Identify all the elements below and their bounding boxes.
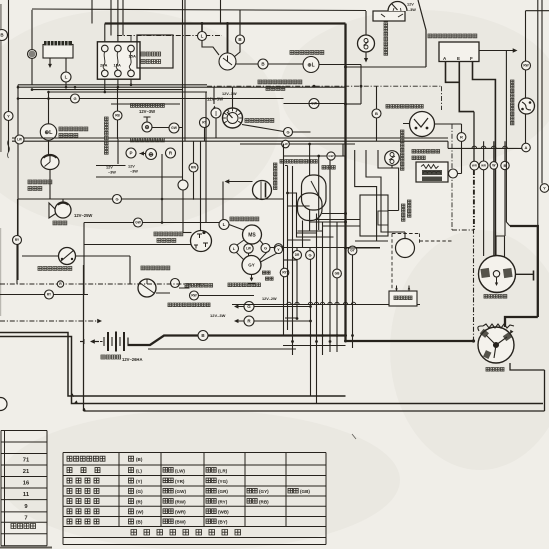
junction dots mesh [286,143,475,343]
node G row [306,251,315,260]
node W right [490,162,498,170]
svg-text:GW: GW [135,221,141,225]
wire breaker to R node [435,124,462,133]
svg-text:(W): (W) [136,510,144,515]
node R chain [57,281,63,287]
svg-text:(B): (B) [136,520,143,525]
beam pilot arrow [140,151,144,155]
label contact breaker [386,105,423,109]
generator arrow [496,278,498,284]
starter rotor [486,335,507,358]
svg-text:Y: Y [7,113,10,118]
meter lamp bulb [142,122,152,132]
mesh v297 [285,260,298,319]
thick bus to engine [346,340,474,342]
wire hazard to x361 [319,64,361,66]
svg-text:(RB): (RB) [259,499,269,504]
ground arrow below relay [49,58,51,64]
node B mesh upper [372,109,381,118]
starter brush pads [480,329,512,359]
dashed link plug to chain [420,240,453,242]
wire lighting switch left upper [183,232,192,234]
wire top horizontal bus [32,9,366,11]
wire bar circle down [215,118,217,138]
svg-text:12V–2W: 12V–2W [262,297,277,301]
wire left vertical [8,0,10,152]
label hazard switch v2 [408,200,411,217]
node WR2 [479,161,488,170]
node B ignition [236,35,245,44]
line y144 long [240,143,355,145]
chain line y321 with arrow [0,320,98,322]
mesh vertical x302.5 [302,221,304,248]
svg-text:–3W: –3W [408,8,416,12]
node B hazard row [258,59,268,69]
mesh z6 [355,150,388,241]
beam pilot lamp center [146,149,157,160]
wiper node L2 [230,244,239,253]
harness node G [71,94,80,103]
svg-text:G: G [73,96,76,101]
junction dots harness2 [17,22,363,106]
fuse F1 top terminal [102,45,109,52]
line y294.5 [0,294,88,296]
harness line y98.5 [18,98,71,100]
svg-text:G: G [308,252,311,257]
harness line y87.2 [18,86,346,88]
svg-text:(R): (R) [136,499,143,504]
node LW mesh [282,140,290,148]
svg-text:11: 11 [23,492,30,498]
fuse F2 bottom terminal [115,70,122,77]
node B right [501,161,509,169]
left table label safe current [11,524,36,529]
fuel meter gauge [41,155,59,170]
mesh box inner [378,211,388,225]
svg-text:(LR): (LR) [218,468,228,473]
mesh hop line y226 [323,225,361,227]
main color-code table grid [63,453,326,545]
label charge pilot vertical [105,117,109,154]
svg-text:B: B [375,111,378,116]
svg-text:P: P [129,151,132,156]
label generator [484,295,507,299]
battery cells [84,332,128,352]
wire RW stubs [193,141,195,200]
coil winding row1 [423,171,441,173]
fuse drop 3 [130,79,132,85]
node LW dark left [15,135,24,144]
svg-text:(YG): (YG) [218,479,228,484]
node DR row [293,251,302,260]
svg-text:–3W: –3W [108,171,116,175]
wire to turn signal unit [48,92,50,124]
wire pilot G right [254,306,311,308]
fuel gauge dial [388,2,407,12]
scan crease squiggle [8,140,10,158]
harness line y89.6 [32,89,183,91]
svg-text:GW: GW [171,126,178,130]
node L below relay [61,72,71,82]
mesh v322.5 [322,222,324,355]
label horn [53,221,67,225]
mesh v287.5 [285,166,288,331]
right vertical x542 [541,0,543,184]
chain h230 [452,229,474,231]
wire vertical pair x185 [184,0,186,141]
long line y138 [12,137,448,139]
stray mark [352,434,356,439]
wire top bus corner down x366 [365,11,367,35]
meter lamp label [131,104,165,108]
horn trumpet [49,203,58,218]
chain line y284 [0,283,205,285]
svg-text:G: G [115,196,118,201]
svg-text:12V–26HA: 12V–26HA [122,357,143,362]
wire relay to L node [65,58,67,72]
wire hazard row [236,63,303,65]
wire B to switch [234,44,240,57]
wire tacho feed [232,87,234,107]
mesh v353 [352,255,354,348]
label fuel level unit vertical [384,18,388,55]
starter circle [478,327,514,363]
fuse drop 1 [104,79,106,92]
mesh v283.5 [283,144,285,268]
wire L to switch [202,41,219,56]
node RY left [13,236,22,245]
headlamp circle [253,181,272,200]
left long drop x83.5 [84,265,545,411]
lighting switch T marks [194,231,208,248]
vertical x206 [205,92,207,223]
chain line at fuse top [117,35,222,37]
wire x361 down [360,65,362,105]
wire reg left feed [346,66,427,68]
beam pilot lamp R [166,148,176,158]
node GW dim row [134,218,143,227]
wire dim row [156,288,254,296]
label battery 12V-26AH [101,355,121,359]
wire WR2 to gen [483,170,485,256]
label turn signal pilot [168,303,210,307]
wire vertical x111 top [110,0,112,36]
svg-text:12V–3W: 12V–3W [139,109,155,114]
wire x118 upper [117,87,119,111]
label turn signal unit l1 [59,127,88,131]
vertical x200.5 into switch [200,141,202,230]
relay unit box [43,45,73,59]
right vertical x525.5 [525,11,527,143]
svg-text:RB: RB [115,114,120,118]
oil level sender [385,151,400,166]
mesh v337 low [336,278,338,352]
wire y222.5 row [84,222,219,224]
wire stop switch row [22,256,130,284]
meter lamp box top [111,103,180,105]
svg-text:12V–25W: 12V–25W [74,213,92,218]
generator center [493,271,499,277]
label ignition starter switch l2 [266,87,285,91]
fuse F3 element [129,52,131,70]
wire pilot R right [254,320,311,322]
wire B up [239,10,241,35]
svg-text:Y: Y [543,185,546,190]
table row earth circuit [67,456,105,461]
node A right [522,143,531,152]
svg-text:WR: WR [472,164,478,168]
wire hops on y304 [287,302,291,304]
table row signal circuit [67,488,99,493]
mesh vertical x343 [342,144,344,156]
wiper ground [251,275,253,280]
mesh h231 [298,230,323,232]
mesh v292.5 [292,166,294,355]
corner arrow marks [70,393,75,398]
wire left drop x18 [17,85,19,280]
harness line y92 [49,91,208,93]
label turn signal unit l2 [59,134,78,138]
label engine [394,296,412,300]
wire vertical x123 top [122,0,124,36]
label lighting switch l1 [154,232,183,236]
wire sender stub [391,165,393,168]
node RB upper [113,111,122,120]
svg-text:12V–3W: 12V–3W [210,313,226,318]
harness line y98.5 right [80,98,284,100]
svg-text:L: L [223,222,226,227]
lamp arrow up 1 [213,106,217,110]
label turn signal switch l2 [322,166,335,170]
wire vertical into fuse feed x92 [91,0,93,24]
chain line y86.2 to right [207,85,442,87]
wire hops on y148 [472,146,477,148]
wire R down to coil [458,141,462,173]
mesh z7 [366,150,405,232]
node Y row [275,246,283,254]
svg-text:21: 21 [23,469,30,475]
scan edge artifacts left [0,4,2,152]
svg-text:(B): (B) [136,457,143,462]
wire fuel meter down [49,170,51,199]
wire x223 down from arrow [222,182,224,220]
wire fuse feed left [104,24,106,42]
ignition coil box [416,162,448,182]
svg-text:(G): (G) [136,489,143,494]
right vertical x537.8 [537,0,539,226]
wiper switch lower [242,256,261,275]
mesh v337 [336,222,338,269]
node RY mesh [280,268,289,277]
mesh v330 [329,161,331,353]
starter field coil [478,324,514,331]
svg-text:16: 16 [23,481,30,487]
coil resistor zigzag [421,165,439,169]
svg-text:(GR): (GR) [218,489,228,494]
turn pilot G arrow [236,306,244,308]
label dimmer switch [141,266,170,270]
svg-text:71: 71 [23,458,30,464]
wire x506 down [506,51,510,227]
svg-text:L: L [201,34,204,39]
wire W to gen [493,169,495,256]
tachometer [223,108,243,128]
mesh v283.5 low [283,277,285,336]
lamp arrow up 2 [231,106,235,110]
fuse F3 bottom terminal [128,70,135,77]
junction dots harness [17,86,120,93]
wire x84 drop [83,223,85,295]
node GB mesh [333,269,342,278]
mesh ladder y260 [284,259,298,261]
battery negative arrow [93,341,99,343]
mesh h222 [310,221,346,223]
line y103.5 gw [284,103,346,105]
ignition starter switch [219,53,236,70]
mesh hop line y219.5 [317,219,361,221]
svg-text:(RY): (RY) [218,499,228,504]
label back lamp switch vertical [511,80,514,125]
label beam pilot [131,138,165,142]
wiper node G [261,244,270,253]
table row meter circuit [67,478,99,483]
chain v473.5 engine boundary [473,170,475,341]
svg-text:E: E [457,56,460,61]
svg-text:⊕: ⊕ [144,125,149,131]
node GW upper mesh [309,99,319,109]
fuse F1 element [103,52,105,70]
wire L node to harness [65,82,67,87]
engine pin 2 [408,286,410,292]
thick bus battery right [128,336,346,346]
node L wiper [219,220,229,230]
svg-text:12V: 12V [106,166,113,170]
svg-text:(YR): (YR) [175,479,185,484]
svg-text:(GW): (GW) [175,489,186,494]
table row charging circuit [67,509,99,514]
chain v452 [451,124,453,230]
thick wire switch to bus [227,24,229,54]
fuse drop 2 [117,79,119,87]
node R right [457,133,466,142]
mesh v309.6 [309,144,311,231]
wire horn top [62,199,64,203]
svg-text:GB: GB [335,272,340,276]
reg wire A [446,62,460,83]
fuse box connector frame [137,35,173,68]
thick bus from fusebox y23.5 [105,22,346,24]
mesh h248 [346,247,381,249]
node G mid [284,128,293,137]
wire vertical x220.5 top [220,0,222,24]
wire x162 drop [161,154,163,223]
generator terminal bar [533,271,535,281]
line y156 [284,155,346,157]
sender ground arrow [365,52,367,58]
junction dark connector on x32 [28,50,37,59]
table row lighting circuit [67,499,99,504]
node RW meter [189,163,198,172]
wire x214 drop [213,87,215,104]
mesh ladder y206 [288,205,310,207]
label stop switch [38,267,72,271]
wiper switch MS [243,225,262,244]
label horn switch vertical2 [274,163,277,189]
label oil level unit vertical [401,130,404,170]
node G y199 [113,195,122,204]
wire G right [293,131,311,133]
reg wire F [473,62,496,256]
speedometer circle [138,279,156,297]
line under bus [148,346,346,350]
chain WR1 down [473,170,475,230]
headlamp arrow [227,181,253,183]
node L ignition [198,32,207,41]
table row starting circuit [67,519,99,524]
mesh v310.5 [310,260,312,397]
fuel gauge arrow marks [381,14,403,17]
generator output wire [516,273,534,275]
wire vertical pair x182 [182,0,185,233]
fuse F2 element [116,52,118,70]
line y165.5 short [96,165,126,167]
svg-text:(WB): (WB) [218,510,229,515]
svg-text:(GY): (GY) [259,489,269,494]
meter lamp ground [144,117,151,122]
mesh z8 [378,150,399,211]
fuel level sender [358,35,375,52]
svg-text:F: F [470,56,473,61]
fuse box outline [97,42,140,79]
relay unit hatched top [44,41,72,45]
svg-text:(BY): (BY) [218,520,228,525]
lighting switch circle [191,231,212,252]
svg-text:(Y): (Y) [136,479,143,484]
engine pin 1 [396,286,398,292]
label fuse box line2 [141,60,161,64]
node RW right edge [522,61,531,70]
svg-text:G: G [286,129,289,134]
svg-text:12V–3W: 12V–3W [222,92,237,96]
fuse F1 bottom terminal [102,70,109,77]
thick left bus upper [0,333,346,397]
wavy line y304.5 [232,304,420,306]
node GW dark mid [169,123,179,133]
beam pilot box edge [117,139,119,164]
label wiper switch [230,217,259,221]
wire x118 lower [117,120,119,139]
turn switch stadium 1 [302,175,327,210]
breaker left tick [403,123,410,125]
label dim2 [185,284,213,288]
svg-text:GY: GY [248,263,255,268]
label ignition coil l1 [412,150,440,154]
turn pilot G [244,302,254,312]
svg-text:A: A [525,145,528,150]
row y247.5 [270,247,380,249]
ignition switch contacts [223,56,232,66]
node Y right edge [540,184,549,193]
svg-text:(LW): (LW) [175,468,185,473]
svg-text:⊕L: ⊕L [307,62,314,68]
wire x361 to bus [346,103,362,105]
wire B to gen [496,170,505,260]
wire vertical fuse center x118 [117,0,119,42]
generator brush left [480,268,490,278]
turn pilot R arrow [236,320,244,322]
long line y141.2 [12,140,448,142]
turn switch stadium 2 [298,193,323,221]
